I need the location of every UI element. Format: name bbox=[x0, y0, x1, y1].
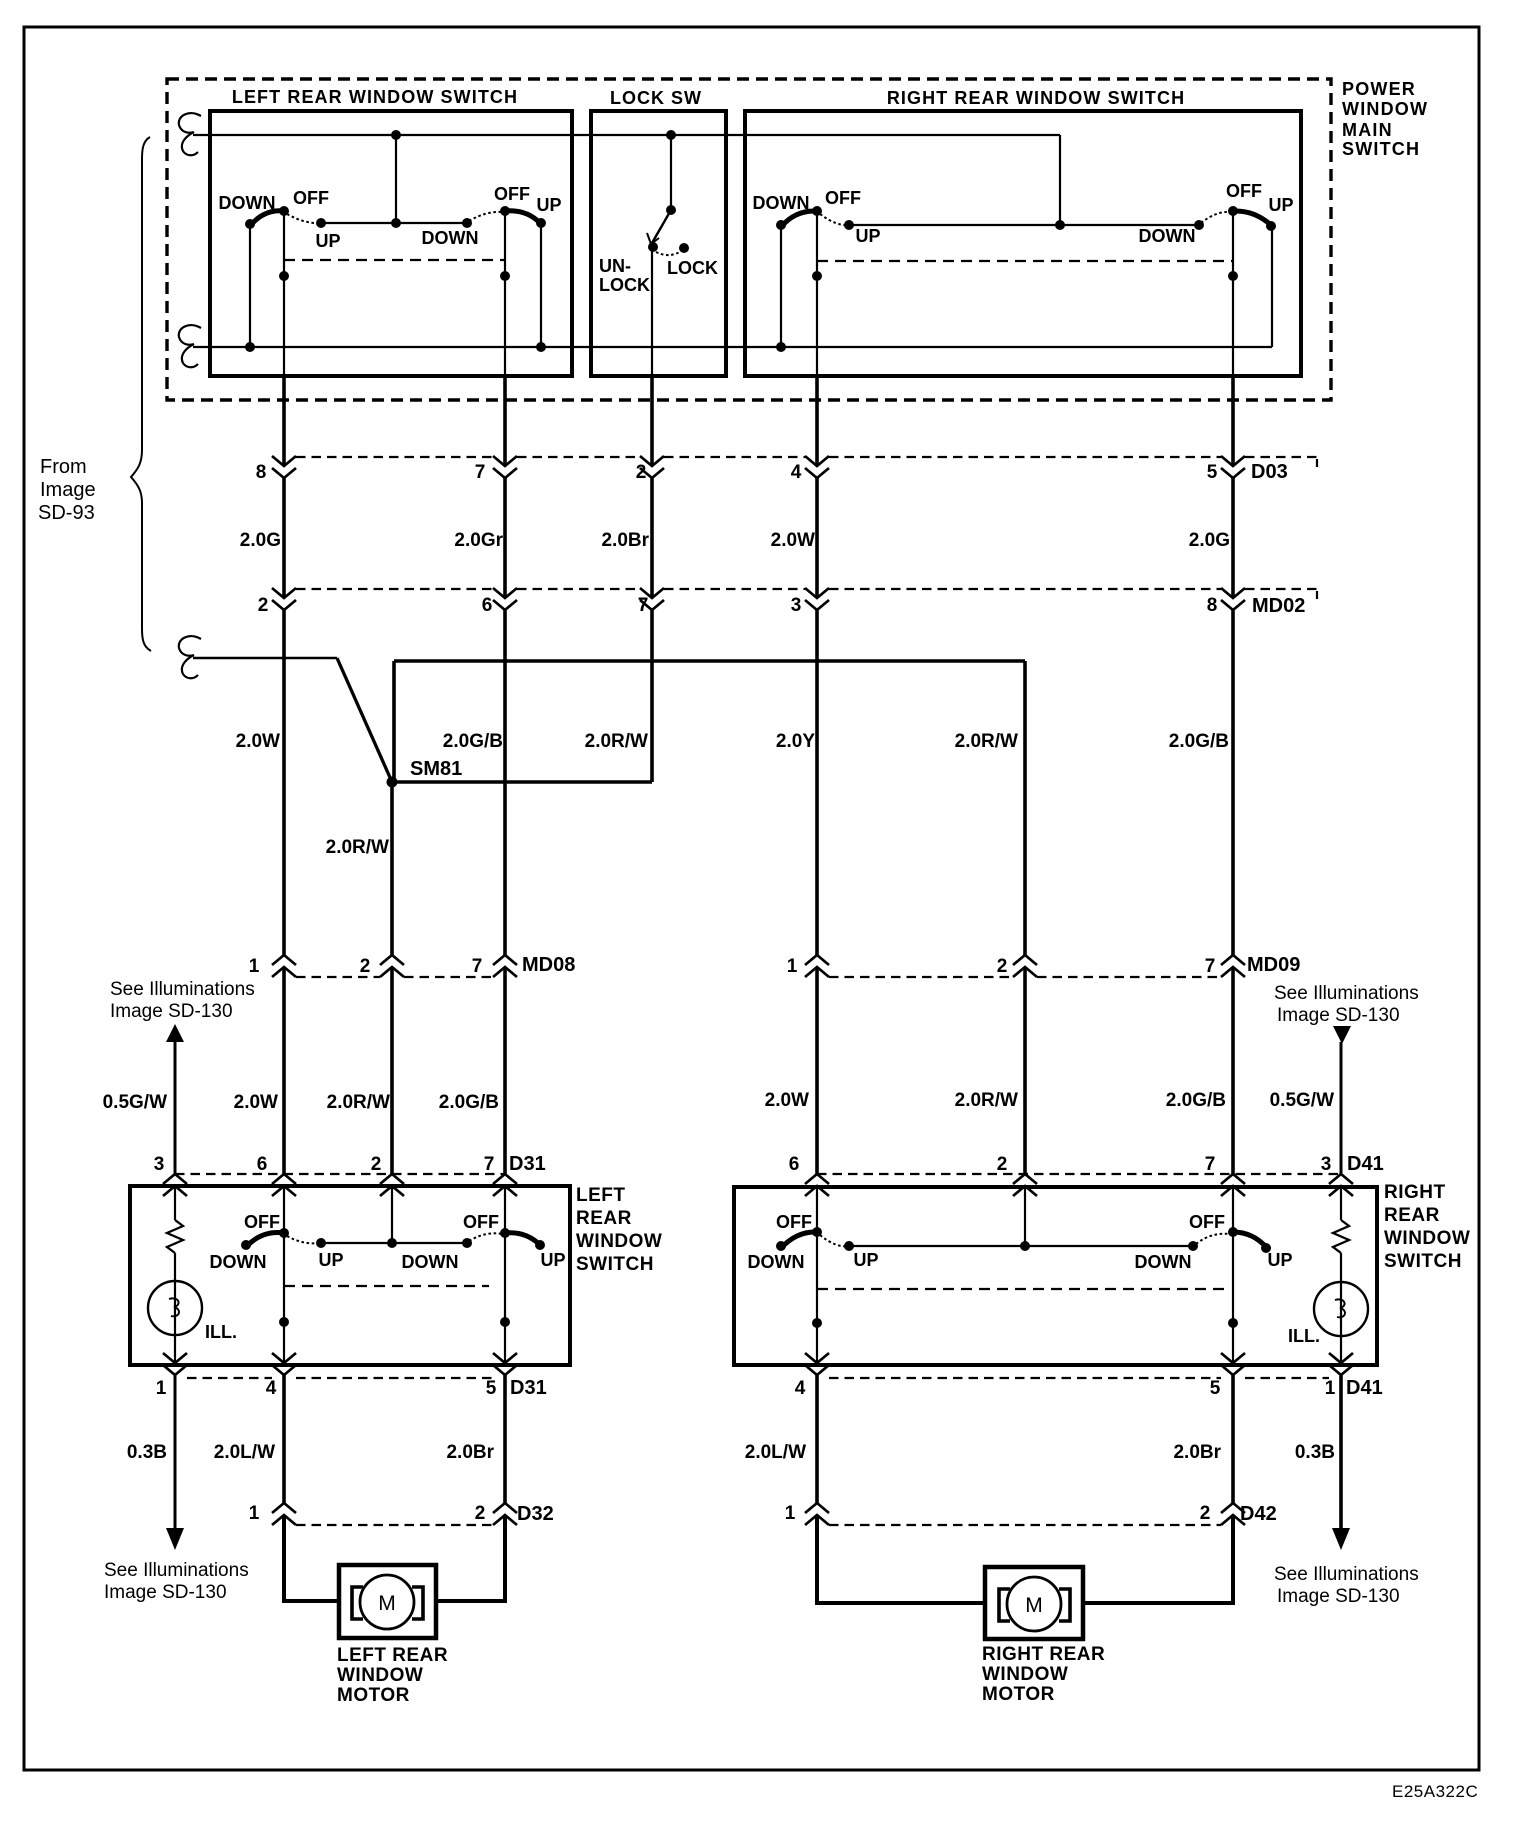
svg-text:3: 3 bbox=[791, 595, 802, 616]
svg-text:4: 4 bbox=[795, 1378, 806, 1399]
svg-text:OFF: OFF bbox=[1189, 1212, 1225, 1232]
svg-text:See Illuminations: See Illuminations bbox=[1274, 1564, 1419, 1585]
svg-text:MD09: MD09 bbox=[1247, 954, 1300, 976]
svg-text:2.0G: 2.0G bbox=[240, 530, 281, 551]
svg-text:POWER: POWER bbox=[1342, 79, 1416, 99]
svg-text:2: 2 bbox=[258, 595, 269, 616]
svg-text:UP: UP bbox=[853, 1250, 878, 1270]
svg-text:UP: UP bbox=[315, 231, 340, 251]
svg-text:LEFT REAR WINDOW SWITCH: LEFT REAR WINDOW SWITCH bbox=[232, 87, 518, 107]
svg-text:2: 2 bbox=[475, 1503, 486, 1524]
svg-text:DOWN: DOWN bbox=[1135, 1252, 1192, 1272]
svg-text:M: M bbox=[1025, 1594, 1043, 1617]
svg-text:SD-93: SD-93 bbox=[38, 502, 95, 524]
svg-text:MD02: MD02 bbox=[1252, 595, 1305, 617]
svg-text:1: 1 bbox=[1325, 1378, 1336, 1399]
svg-text:DOWN: DOWN bbox=[748, 1252, 805, 1272]
svg-text:UP: UP bbox=[540, 1250, 565, 1270]
svg-text:WINDOW: WINDOW bbox=[576, 1231, 662, 1252]
svg-text:SWITCH: SWITCH bbox=[1342, 139, 1420, 159]
svg-text:SM81: SM81 bbox=[410, 758, 462, 780]
svg-text:7: 7 bbox=[1205, 1154, 1216, 1175]
svg-text:MAIN: MAIN bbox=[1342, 120, 1393, 140]
svg-text:2: 2 bbox=[997, 956, 1008, 977]
svg-text:2: 2 bbox=[1200, 1503, 1211, 1524]
svg-text:DOWN: DOWN bbox=[210, 1252, 267, 1272]
svg-text:E25A322C: E25A322C bbox=[1392, 1782, 1478, 1801]
svg-text:6: 6 bbox=[789, 1154, 800, 1175]
svg-text:DOWN: DOWN bbox=[753, 193, 810, 213]
svg-text:DOWN: DOWN bbox=[402, 1252, 459, 1272]
svg-text:RIGHT REAR WINDOW SWITCH: RIGHT REAR WINDOW SWITCH bbox=[887, 88, 1185, 108]
svg-text:MD08: MD08 bbox=[522, 954, 575, 976]
svg-text:OFF: OFF bbox=[244, 1212, 280, 1232]
svg-text:D41: D41 bbox=[1346, 1377, 1383, 1399]
svg-text:OFF: OFF bbox=[825, 188, 861, 208]
svg-text:6: 6 bbox=[257, 1154, 268, 1175]
svg-text:MOTOR: MOTOR bbox=[337, 1685, 410, 1706]
svg-text:7: 7 bbox=[484, 1154, 495, 1175]
svg-text:OFF: OFF bbox=[463, 1212, 499, 1232]
svg-text:2.0Y: 2.0Y bbox=[776, 731, 815, 752]
svg-text:OFF: OFF bbox=[1226, 181, 1262, 201]
svg-text:D32: D32 bbox=[517, 1503, 554, 1525]
svg-text:SWITCH: SWITCH bbox=[576, 1254, 654, 1275]
svg-text:UP: UP bbox=[855, 226, 880, 246]
svg-text:8: 8 bbox=[1207, 595, 1218, 616]
svg-text:2.0G/B: 2.0G/B bbox=[1169, 731, 1229, 752]
svg-text:2.0W: 2.0W bbox=[236, 731, 280, 752]
svg-text:0.5G/W: 0.5G/W bbox=[103, 1092, 167, 1113]
svg-text:WINDOW: WINDOW bbox=[1384, 1228, 1470, 1249]
svg-text:OFF: OFF bbox=[293, 188, 329, 208]
svg-text:2.0R/W: 2.0R/W bbox=[955, 731, 1018, 752]
svg-text:Image: Image bbox=[40, 479, 96, 501]
svg-text:D41: D41 bbox=[1347, 1153, 1384, 1175]
svg-text:OFF: OFF bbox=[494, 184, 530, 204]
svg-text:2.0Br: 2.0Br bbox=[601, 530, 649, 551]
svg-text:1: 1 bbox=[249, 1503, 260, 1524]
svg-text:UP: UP bbox=[536, 195, 561, 215]
svg-text:2.0G/B: 2.0G/B bbox=[439, 1092, 499, 1113]
svg-text:0.3B: 0.3B bbox=[1295, 1442, 1335, 1463]
svg-text:D31: D31 bbox=[510, 1377, 547, 1399]
svg-text:See Illuminations: See Illuminations bbox=[104, 1560, 249, 1581]
svg-text:2.0W: 2.0W bbox=[234, 1092, 278, 1113]
svg-text:SWITCH: SWITCH bbox=[1384, 1251, 1462, 1272]
svg-text:ILL.: ILL. bbox=[205, 1322, 237, 1342]
svg-text:D03: D03 bbox=[1251, 461, 1288, 483]
svg-text:1: 1 bbox=[787, 956, 798, 977]
svg-text:Image SD-130: Image SD-130 bbox=[1277, 1586, 1400, 1607]
svg-text:0.3B: 0.3B bbox=[127, 1442, 167, 1463]
svg-text:Image SD-130: Image SD-130 bbox=[104, 1582, 227, 1603]
svg-text:2.0R/W: 2.0R/W bbox=[955, 1090, 1018, 1111]
svg-text:RIGHT REAR: RIGHT REAR bbox=[982, 1644, 1105, 1665]
svg-text:2.0Br: 2.0Br bbox=[446, 1442, 494, 1463]
svg-text:7: 7 bbox=[472, 956, 483, 977]
svg-text:4: 4 bbox=[791, 462, 802, 483]
svg-text:DOWN: DOWN bbox=[422, 228, 479, 248]
svg-text:5: 5 bbox=[1210, 1378, 1221, 1399]
svg-text:UP: UP bbox=[318, 1250, 343, 1270]
svg-text:5: 5 bbox=[1207, 462, 1218, 483]
svg-text:1: 1 bbox=[249, 956, 260, 977]
svg-text:2.0R/W: 2.0R/W bbox=[327, 1092, 390, 1113]
svg-text:2.0L/W: 2.0L/W bbox=[745, 1442, 806, 1463]
svg-text:LOCK: LOCK bbox=[599, 275, 650, 295]
svg-text:2: 2 bbox=[636, 462, 647, 483]
svg-text:1: 1 bbox=[785, 1503, 796, 1524]
svg-text:Image SD-130: Image SD-130 bbox=[1277, 1005, 1400, 1026]
svg-text:2.0R/W: 2.0R/W bbox=[585, 731, 648, 752]
svg-text:LOCK: LOCK bbox=[667, 258, 718, 278]
svg-text:M: M bbox=[378, 1592, 396, 1615]
svg-text:2.0R/W: 2.0R/W bbox=[326, 837, 389, 858]
svg-text:2.0Br: 2.0Br bbox=[1173, 1442, 1221, 1463]
svg-text:D31: D31 bbox=[509, 1153, 546, 1175]
svg-text:LEFT: LEFT bbox=[576, 1185, 626, 1206]
svg-text:6: 6 bbox=[482, 595, 493, 616]
svg-text:7: 7 bbox=[638, 595, 649, 616]
svg-text:WINDOW: WINDOW bbox=[1342, 99, 1428, 119]
svg-text:UN-: UN- bbox=[599, 256, 631, 276]
svg-text:2.0G/B: 2.0G/B bbox=[1166, 1090, 1226, 1111]
svg-text:7: 7 bbox=[475, 462, 486, 483]
svg-text:MOTOR: MOTOR bbox=[982, 1684, 1055, 1705]
svg-text:5: 5 bbox=[486, 1378, 497, 1399]
svg-text:LEFT REAR: LEFT REAR bbox=[337, 1645, 448, 1666]
svg-text:WINDOW: WINDOW bbox=[982, 1664, 1068, 1685]
svg-text:1: 1 bbox=[156, 1378, 167, 1399]
svg-text:2.0Gr: 2.0Gr bbox=[454, 530, 503, 551]
svg-text:2.0W: 2.0W bbox=[765, 1090, 809, 1111]
svg-text:DOWN: DOWN bbox=[219, 193, 276, 213]
svg-text:2: 2 bbox=[997, 1154, 1008, 1175]
svg-text:REAR: REAR bbox=[576, 1208, 632, 1229]
svg-text:0.5G/W: 0.5G/W bbox=[1270, 1090, 1334, 1111]
svg-text:4: 4 bbox=[266, 1378, 277, 1399]
svg-text:OFF: OFF bbox=[776, 1212, 812, 1232]
svg-text:2.0L/W: 2.0L/W bbox=[214, 1442, 275, 1463]
svg-text:ILL.: ILL. bbox=[1288, 1326, 1320, 1346]
svg-text:3: 3 bbox=[154, 1154, 165, 1175]
svg-text:D42: D42 bbox=[1240, 1503, 1277, 1525]
svg-text:REAR: REAR bbox=[1384, 1205, 1440, 1226]
svg-text:RIGHT: RIGHT bbox=[1384, 1182, 1446, 1203]
svg-text:2.0G: 2.0G bbox=[1189, 530, 1230, 551]
svg-text:Image SD-130: Image SD-130 bbox=[110, 1001, 233, 1022]
svg-text:LOCK SW: LOCK SW bbox=[610, 88, 702, 108]
svg-text:UP: UP bbox=[1267, 1250, 1292, 1270]
svg-text:WINDOW: WINDOW bbox=[337, 1665, 423, 1686]
svg-text:See Illuminations: See Illuminations bbox=[110, 979, 255, 1000]
svg-text:2: 2 bbox=[371, 1154, 382, 1175]
svg-text:From: From bbox=[40, 456, 87, 478]
svg-text:See Illuminations: See Illuminations bbox=[1274, 983, 1419, 1004]
svg-text:UP: UP bbox=[1268, 195, 1293, 215]
svg-text:DOWN: DOWN bbox=[1139, 226, 1196, 246]
svg-text:2.0W: 2.0W bbox=[771, 530, 815, 551]
svg-text:2.0G/B: 2.0G/B bbox=[443, 731, 503, 752]
svg-text:3: 3 bbox=[1321, 1154, 1332, 1175]
svg-text:7: 7 bbox=[1205, 956, 1216, 977]
svg-text:8: 8 bbox=[256, 462, 267, 483]
svg-text:2: 2 bbox=[360, 956, 371, 977]
